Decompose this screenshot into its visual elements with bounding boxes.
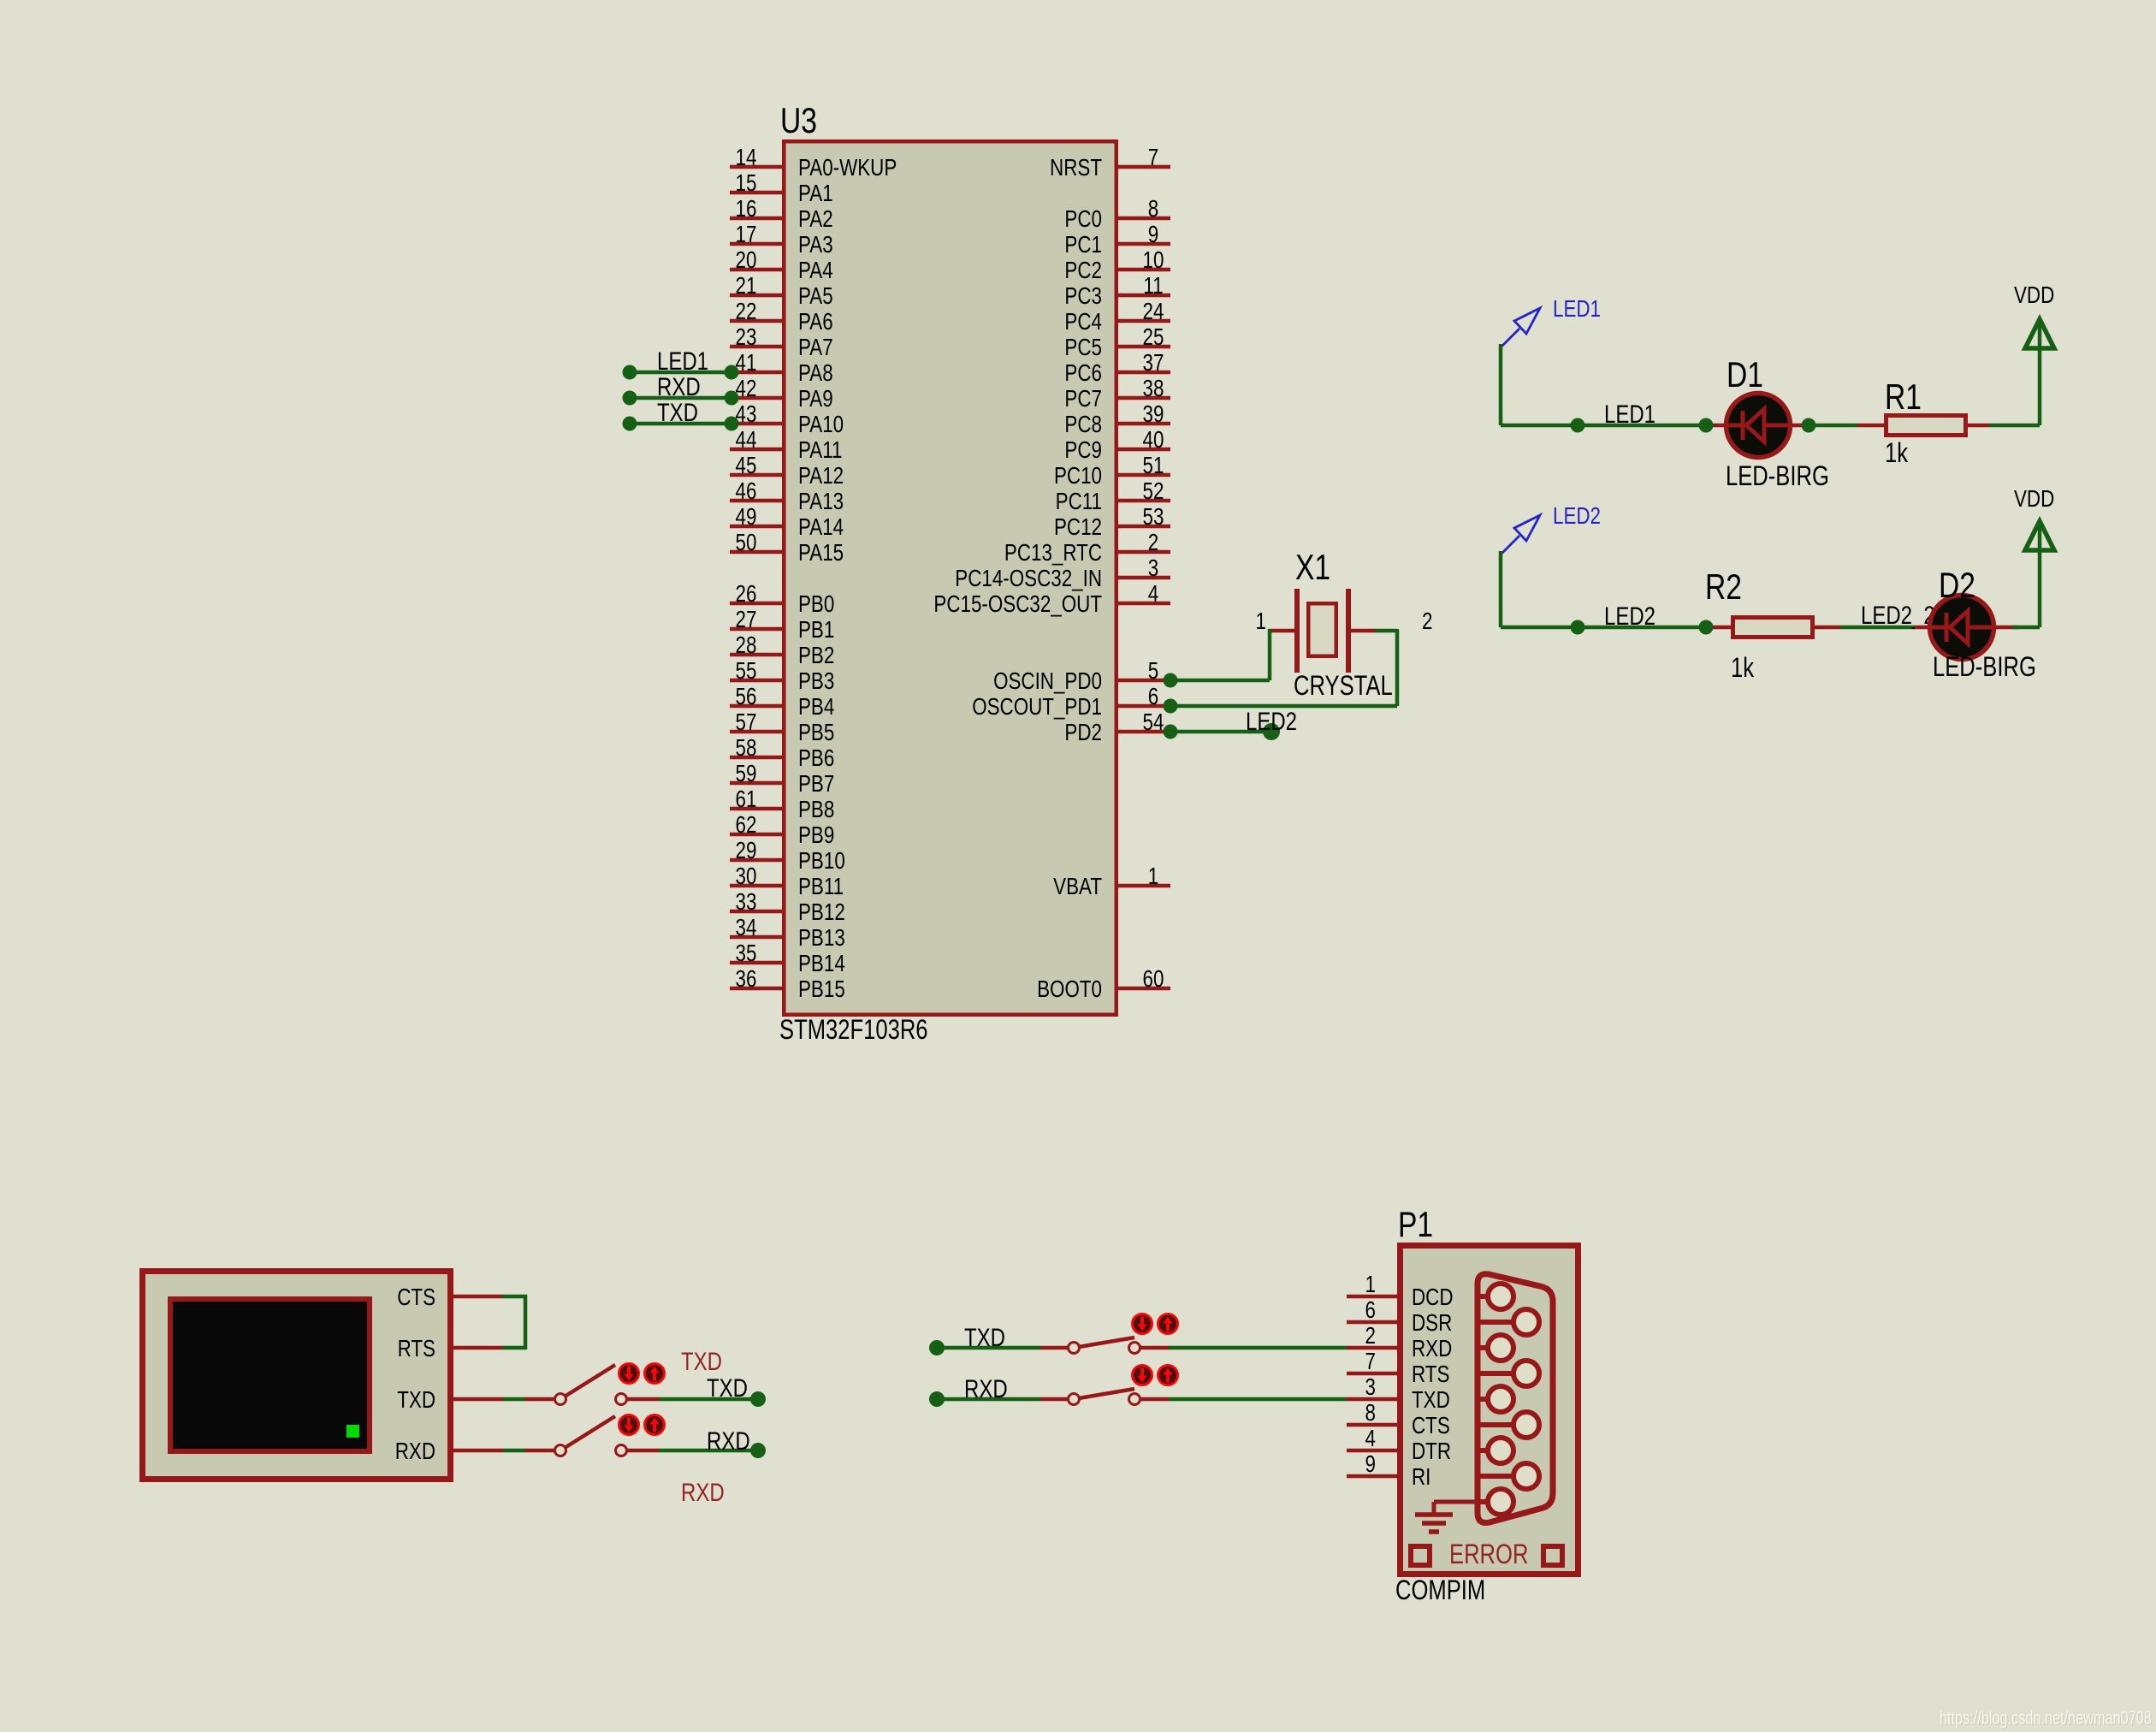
svg-text:LED2: LED2	[1604, 601, 1655, 630]
svg-text:ERROR: ERROR	[1449, 1539, 1528, 1569]
svg-text:51: 51	[1143, 453, 1164, 479]
svg-text:PB10: PB10	[798, 848, 845, 875]
svg-text:PB1: PB1	[798, 617, 834, 644]
svg-text:PA5: PA5	[798, 283, 833, 310]
svg-text:2: 2	[1365, 1323, 1376, 1349]
svg-text:27: 27	[736, 607, 757, 633]
svg-text:STM32F103R6: STM32F103R6	[779, 1015, 928, 1045]
svg-text:X1: X1	[1295, 549, 1330, 588]
svg-text:DTR: DTR	[1412, 1438, 1451, 1465]
svg-text:PA13: PA13	[798, 489, 844, 515]
svg-text:PA8: PA8	[798, 360, 833, 387]
svg-text:PB12: PB12	[798, 899, 845, 926]
svg-text:PC8: PC8	[1064, 412, 1102, 438]
svg-text:58: 58	[736, 735, 757, 762]
svg-text:21: 21	[736, 273, 757, 300]
svg-text:44: 44	[736, 427, 757, 454]
svg-text:57: 57	[736, 709, 757, 736]
svg-text:RXD: RXD	[707, 1426, 750, 1455]
svg-text:PC0: PC0	[1064, 206, 1102, 233]
svg-text:PB2: PB2	[798, 643, 834, 669]
svg-text:PA0-WKUP: PA0-WKUP	[798, 155, 897, 181]
svg-text:PB8: PB8	[798, 797, 834, 823]
svg-text:R1: R1	[1885, 378, 1922, 418]
svg-text:LED-BIRG: LED-BIRG	[1933, 652, 2036, 682]
svg-text:38: 38	[1143, 376, 1164, 402]
svg-text:24: 24	[1143, 299, 1164, 325]
svg-text:PC15-OSC32_OUT: PC15-OSC32_OUT	[933, 591, 1102, 618]
svg-text:TXD: TXD	[1412, 1387, 1450, 1414]
svg-text:PC7: PC7	[1064, 386, 1102, 412]
svg-text:LED1: LED1	[1553, 296, 1601, 323]
svg-text:PA11: PA11	[798, 437, 842, 464]
svg-text:1k: 1k	[1885, 438, 1908, 468]
svg-text:10: 10	[1143, 247, 1164, 274]
svg-text:PA3: PA3	[798, 232, 833, 258]
svg-text:6: 6	[1148, 684, 1158, 710]
svg-text:PB0: PB0	[798, 591, 834, 618]
svg-text:PC1: PC1	[1064, 232, 1102, 258]
svg-text:RXD: RXD	[681, 1477, 725, 1506]
svg-text:PA14: PA14	[798, 514, 844, 541]
svg-text:25: 25	[1143, 324, 1164, 351]
svg-text:37: 37	[1143, 350, 1164, 377]
svg-text:2: 2	[1148, 530, 1158, 556]
svg-text:52: 52	[1143, 478, 1164, 505]
svg-text:55: 55	[736, 658, 757, 685]
svg-text:PC13_RTC: PC13_RTC	[1004, 540, 1102, 566]
svg-text:TXD: TXD	[964, 1322, 1005, 1351]
svg-text:PC14-OSC32_IN: PC14-OSC32_IN	[955, 566, 1102, 592]
svg-text:50: 50	[736, 530, 757, 556]
svg-text:PA1: PA1	[798, 181, 833, 207]
svg-text:3: 3	[1365, 1374, 1376, 1401]
svg-text:PC11: PC11	[1056, 489, 1102, 515]
svg-text:60: 60	[1143, 966, 1164, 993]
svg-text:TXD: TXD	[681, 1346, 722, 1375]
svg-text:30: 30	[736, 863, 757, 890]
svg-text:53: 53	[1143, 504, 1164, 531]
svg-text:1: 1	[1365, 1272, 1376, 1298]
svg-text:TXD: TXD	[657, 397, 698, 426]
svg-text:54: 54	[1143, 709, 1164, 736]
svg-text:39: 39	[1143, 401, 1164, 428]
svg-text:BOOT0: BOOT0	[1037, 976, 1102, 1003]
svg-text:PC12: PC12	[1054, 514, 1102, 541]
svg-text:16: 16	[736, 196, 757, 222]
svg-text:2: 2	[1422, 608, 1432, 635]
svg-text:LED2: LED2	[1246, 706, 1297, 735]
svg-text:R2: R2	[1705, 568, 1742, 608]
svg-text:62: 62	[736, 812, 757, 839]
svg-text:LED1: LED1	[1604, 399, 1655, 428]
svg-text:PA9: PA9	[798, 386, 833, 412]
svg-text:23: 23	[736, 324, 757, 351]
svg-text:1: 1	[1256, 608, 1266, 635]
svg-text:PA15: PA15	[798, 540, 844, 566]
svg-text:LED-BIRG: LED-BIRG	[1726, 461, 1829, 491]
svg-text:VDD: VDD	[2014, 486, 2054, 513]
svg-text:9: 9	[1365, 1451, 1376, 1478]
svg-text:TXD: TXD	[707, 1373, 748, 1402]
svg-text:8: 8	[1148, 196, 1158, 222]
svg-text:D2: D2	[1939, 566, 1975, 606]
svg-text:PB4: PB4	[798, 694, 834, 721]
svg-text:4: 4	[1365, 1426, 1376, 1452]
svg-text:46: 46	[736, 478, 757, 505]
svg-text:PB6: PB6	[798, 745, 834, 772]
svg-text:5: 5	[1148, 658, 1158, 685]
svg-text:DCD: DCD	[1412, 1284, 1454, 1311]
svg-text:COMPIM: COMPIM	[1395, 1575, 1485, 1605]
svg-text:PD2: PD2	[1064, 720, 1102, 746]
svg-text:14: 14	[736, 145, 757, 171]
svg-text:P1: P1	[1398, 1206, 1433, 1245]
svg-text:OSCOUT_PD1: OSCOUT_PD1	[972, 694, 1102, 721]
svg-text:PC6: PC6	[1064, 360, 1102, 387]
svg-text:6: 6	[1365, 1297, 1376, 1324]
svg-text:CTS: CTS	[397, 1284, 435, 1311]
svg-text:36: 36	[736, 966, 757, 993]
svg-text:PC2: PC2	[1064, 258, 1102, 284]
svg-text:CRYSTAL: CRYSTAL	[1294, 671, 1393, 701]
svg-text:PC4: PC4	[1064, 309, 1102, 335]
svg-text:PB3: PB3	[798, 668, 834, 695]
svg-text:PB14: PB14	[798, 951, 845, 977]
svg-text:RTS: RTS	[1412, 1361, 1449, 1388]
svg-text:PB11: PB11	[798, 874, 844, 900]
svg-text:49: 49	[736, 504, 757, 531]
svg-text:PC5: PC5	[1064, 335, 1102, 361]
svg-text:22: 22	[736, 299, 757, 325]
svg-text:U3: U3	[780, 102, 817, 141]
svg-text:56: 56	[736, 684, 757, 710]
svg-text:11: 11	[1143, 273, 1163, 300]
svg-text:35: 35	[736, 940, 757, 967]
svg-text:RTS: RTS	[398, 1336, 435, 1362]
svg-text:TXD: TXD	[397, 1387, 435, 1414]
svg-text:40: 40	[1143, 427, 1164, 454]
svg-text:59: 59	[736, 761, 757, 787]
svg-text:26: 26	[736, 581, 757, 608]
svg-text:3: 3	[1148, 555, 1158, 582]
svg-text:PC9: PC9	[1064, 437, 1102, 464]
svg-text:VDD: VDD	[2014, 282, 2054, 309]
svg-text:CTS: CTS	[1412, 1413, 1450, 1439]
svg-text:PB15: PB15	[798, 976, 845, 1003]
svg-text:29: 29	[736, 838, 757, 864]
svg-text:PA4: PA4	[798, 258, 833, 284]
svg-text:15: 15	[736, 170, 757, 197]
svg-text:28: 28	[736, 632, 757, 659]
svg-text:VBAT: VBAT	[1053, 874, 1102, 900]
svg-text:https://blog.csdn.net/newman07: https://blog.csdn.net/newman0708	[1940, 1708, 2152, 1729]
svg-text:7: 7	[1148, 145, 1158, 171]
svg-text:4: 4	[1148, 581, 1158, 608]
svg-text:PB9: PB9	[798, 822, 834, 849]
svg-text:61: 61	[736, 786, 757, 813]
svg-text:7: 7	[1365, 1349, 1376, 1375]
svg-text:NRST: NRST	[1050, 155, 1102, 181]
svg-text:LED2_2: LED2_2	[1861, 600, 1935, 629]
svg-text:PA6: PA6	[798, 309, 833, 335]
svg-text:RXD: RXD	[964, 1373, 1008, 1403]
svg-text:1: 1	[1148, 863, 1158, 890]
svg-text:DSR: DSR	[1412, 1310, 1452, 1337]
svg-text:PA12: PA12	[798, 463, 844, 489]
svg-text:PB5: PB5	[798, 720, 834, 746]
svg-text:17: 17	[736, 222, 757, 248]
svg-text:RI: RI	[1412, 1464, 1430, 1491]
svg-text:34: 34	[736, 915, 757, 941]
svg-text:PA2: PA2	[798, 206, 833, 233]
svg-text:PB7: PB7	[798, 771, 834, 798]
svg-text:20: 20	[736, 247, 757, 274]
svg-text:45: 45	[736, 453, 757, 479]
svg-text:9: 9	[1148, 222, 1158, 248]
svg-text:RXD: RXD	[395, 1438, 435, 1465]
svg-text:PC3: PC3	[1064, 283, 1102, 310]
svg-text:RXD: RXD	[1412, 1336, 1452, 1362]
svg-text:PC10: PC10	[1054, 463, 1102, 489]
svg-text:LED2: LED2	[1553, 503, 1601, 530]
svg-text:D1: D1	[1727, 356, 1763, 395]
svg-text:PA7: PA7	[798, 335, 833, 361]
svg-text:33: 33	[736, 889, 757, 916]
svg-text:1k: 1k	[1731, 653, 1754, 683]
svg-text:OSCIN_PD0: OSCIN_PD0	[993, 668, 1102, 695]
svg-text:PB13: PB13	[798, 925, 845, 952]
svg-text:8: 8	[1365, 1400, 1376, 1427]
svg-text:PA10: PA10	[798, 412, 844, 438]
